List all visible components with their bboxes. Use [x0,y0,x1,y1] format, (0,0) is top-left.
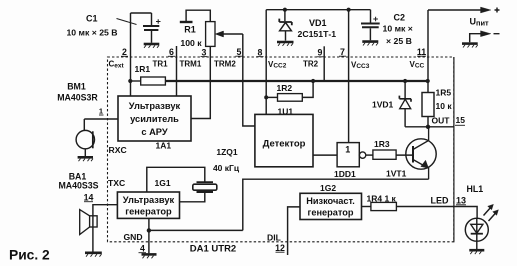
ground under BA1 [85,253,102,257]
svg-text:40 кГц: 40 кГц [213,163,240,173]
wire TXC from BA1 [93,205,118,252]
R1 wiper arrow [215,31,243,37]
BA1 label [58,172,98,191]
pin 14 label [84,193,94,203]
svg-text:10 мк × 25 В: 10 мк × 25 В [66,27,117,37]
node bus end / 1R5 top [426,79,430,83]
transistor 1VT1 [406,127,436,179]
wire RXC input [84,118,118,120]
ground under HL1 [469,250,484,254]
BM1 label [57,82,98,103]
svg-text:1VD1: 1VD1 [372,99,394,109]
ground at Uпит minus [462,44,478,48]
node pin 7 on rail [347,8,351,12]
node 1R2 left [264,95,268,99]
svg-text:TR2: TR2 [303,60,319,69]
svg-text:Детектор: Детектор [263,139,306,150]
pin 2 label [121,47,128,57]
node 1R2 on bus [311,79,315,83]
svg-text:5: 5 [237,47,242,57]
wire pin 2 vertical (Cext) [130,13,132,96]
1ZQ1 labels [213,147,240,173]
pin 5 label [236,47,243,57]
crystal loop wire [147,167,205,202]
capacitor C1 [143,13,161,43]
OUT wire pin 15 [405,126,454,128]
svg-text:усилитель: усилитель [130,114,179,124]
zener diode 1VD1 [399,81,411,127]
pin 7 label [339,47,346,57]
C2 value label [383,12,413,46]
emitter wire to ground net [243,179,429,230]
pin 8 label [257,47,264,57]
svg-text:GND: GND [124,232,143,242]
node VD1 on rail [283,8,287,12]
svg-text:1G1: 1G1 [155,178,171,188]
trimmer R1 body [206,22,215,47]
svg-text:2С151Т-1: 2С151Т-1 [298,29,337,39]
pin 6 stub wire (TR1) [176,46,178,96]
detector block 1U1 [255,114,313,166]
pin 12 label [275,243,285,253]
resistor 1R5 [422,81,434,127]
LED HL1 [465,218,488,249]
GND horizontal wire [149,229,243,231]
supply rail left segment [266,9,370,11]
svg-text:TR1: TR1 [153,59,169,68]
resistor 1R4 [362,202,397,210]
C1 value label [66,13,117,37]
wire detector output to gate input [313,154,337,156]
resistor 1R2 [278,94,303,102]
HL1 arrows [484,204,499,221]
ground under VD1 [277,42,294,46]
svg-text:TXC: TXC [108,178,125,188]
svg-text:Ультразвук: Ультразвук [123,195,175,205]
wire pin 7 vertical (Vcc3) from rail to gate 1DD1 [348,10,350,143]
svg-text:Низкочаст.: Низкочаст. [306,196,355,206]
svg-text:OUT: OUT [432,116,451,126]
resistor 1R3 [373,150,396,159]
node 1VD1 on bus [403,79,407,83]
svg-text:1R2: 1R2 [277,83,293,93]
ground under BM1 [78,157,93,161]
svg-text:Ультразвук: Ультразвук [129,101,181,111]
generator text [123,195,175,217]
pin 11 label [417,47,426,57]
svg-text:1DD1: 1DD1 [334,169,356,179]
svg-text:генератор: генератор [308,207,354,217]
svg-text:Рис. 2: Рис. 2 [9,248,50,263]
svg-text:C2: C2 [394,12,406,22]
R1 labels [180,25,202,49]
svg-text:MA40S3R: MA40S3R [57,93,98,103]
svg-text:генератор: генератор [125,207,172,217]
svg-text:12: 12 [275,243,285,253]
microphone BM1 [76,119,94,156]
svg-text:Uпит: Uпит [470,17,490,28]
ground under C1 [144,44,160,48]
ground under pin 4 [142,254,157,258]
IC right edge solid [453,57,455,242]
svg-text:HL1: HL1 [467,184,484,194]
internal bus wire (heavy) [165,80,427,82]
wire gate output to 1R3 [366,154,373,156]
svg-text:VCC2: VCC2 [268,60,287,70]
wire node pin2 to 1R1 [130,80,141,82]
zener diode VD1 [279,10,292,41]
svg-text:3: 3 [202,48,207,58]
ground bar at R1 loop end [180,21,193,23]
svg-text:4: 4 [140,244,145,254]
wire DIL pin 12 [288,207,300,255]
svg-text:2: 2 [122,47,127,57]
resistor 1R1 [141,77,166,85]
crystal 1ZQ1 [193,182,217,192]
svg-text:C1: C1 [86,13,98,23]
amplifier block 1A1 [118,96,191,141]
svg-text:R1: R1 [184,25,196,35]
svg-text:6: 6 [169,47,174,57]
svg-text:1R1: 1R1 [135,64,151,74]
svg-text:1R5: 1R5 [436,87,452,97]
svg-text:DA1 UTR2: DA1 UTR2 [190,244,236,255]
svg-text:1ZQ1: 1ZQ1 [216,147,238,157]
svg-text:LED: LED [431,196,450,206]
svg-text:15: 15 [456,115,466,125]
pin 4 label [139,244,147,254]
svg-text:DIL: DIL [267,233,281,243]
svg-text:14: 14 [84,193,94,203]
logic gate 1DD1 [337,143,366,167]
wire 1R2 left to pin8 line [266,96,277,98]
C1 leader line [117,19,137,25]
wire 1R3 to base [396,154,413,156]
svg-text:1VT1: 1VT1 [386,168,407,178]
wire R1 wiper to pin 5 and detector input [243,34,255,126]
wire 1R2 right up to bus [302,81,313,97]
pin 3 label [201,48,208,58]
GND wire and node [148,218,150,253]
svg-text:TRM2: TRM2 [214,59,236,68]
svg-text:VCC: VCC [410,60,425,70]
svg-text:× 25 В: × 25 В [386,36,412,46]
1R5 labels [436,87,453,111]
low frequency generator block 1G2 [300,193,362,219]
svg-text:9: 9 [318,48,323,58]
svg-text:11: 11 [417,47,426,57]
wire pin 8 vertical (Vcc2) from rail to detector top [265,10,267,115]
amplifier text [129,101,181,137]
GND label [124,232,143,242]
svg-text:10 мк ×: 10 мк × [383,24,413,34]
svg-text:VD1: VD1 [309,18,327,28]
IC DA1 dashed outline [108,57,454,242]
R1 top loop wire [186,10,210,21]
svg-text:VCC3: VCC3 [351,60,370,70]
wire R1 bottom to pin 3 and into amplifier [191,46,210,118]
svg-text:с АРУ: с АРУ [141,127,168,137]
pin 9 label [317,48,324,58]
svg-text:BM1: BM1 [67,82,86,92]
svg-text:Cext: Cext [109,60,125,70]
pin 1 label [99,107,104,116]
pin 13 label [456,196,466,206]
generator block 1G1 [117,192,179,218]
svg-text:1: 1 [345,144,350,154]
svg-text:TRM1: TRM1 [180,59,202,68]
1G2 text [306,196,355,218]
svg-text:MA40S3S: MA40S3S [58,181,98,191]
supply rail right segment with plus terminal arrow [428,7,500,13]
wire pin 11 vertical (Vcc) [427,10,429,81]
speaker BA1 [80,210,97,235]
svg-text:7: 7 [340,47,345,57]
svg-text:1G2: 1G2 [320,183,336,193]
node GND [147,228,151,232]
svg-text:1: 1 [99,107,103,116]
node pin 2 / 1R1 [128,79,132,83]
VD1 labels [298,18,337,39]
ground under C2 [362,42,378,46]
svg-text:13: 13 [456,196,466,206]
wire pin 9 stub (TR2) [323,46,325,81]
svg-text:8: 8 [258,47,263,57]
svg-text:10 к: 10 к [436,101,453,111]
svg-text:1А1: 1А1 [156,141,172,151]
minus terminal wire of Uпит [470,31,500,43]
svg-text:100 к: 100 к [180,38,202,48]
svg-text:1R3: 1R3 [374,139,390,149]
LED wire pin 13 to HL1 [396,207,477,219]
node OUT [426,125,430,129]
pin 6 label [168,47,175,57]
svg-text:RXC: RXC [109,145,127,155]
capacitor C2 [361,10,380,41]
pin 15 label [455,115,465,125]
wire pin2 to C1 top [131,12,152,14]
svg-text:1R4 1 к: 1R4 1 к [367,194,397,204]
